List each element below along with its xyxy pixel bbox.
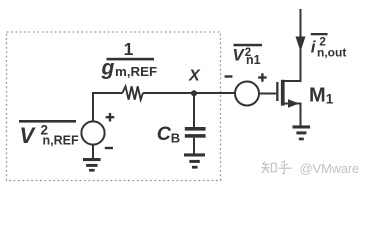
transistor M1 source arrow <box>288 99 299 108</box>
svg-text:B: B <box>171 131 180 146</box>
resistor R (1/gm,REF) zigzag <box>122 86 143 99</box>
polarity - of Vn1 <box>225 75 233 77</box>
ground under M1 <box>293 125 311 140</box>
svg-text:M: M <box>309 85 326 107</box>
ground under Vn,REF <box>83 158 101 172</box>
transistor M1 gate bar <box>276 82 278 101</box>
node X junction dot <box>191 90 197 96</box>
wire: node X down to capacitor <box>193 93 195 127</box>
svg-text:C: C <box>157 123 172 145</box>
current arrow on drain wire (pointing down) <box>296 37 306 52</box>
wire: resistor to node X and on to Vn1 source <box>143 92 236 94</box>
polarity + of Vn1 <box>258 73 266 81</box>
label i2 n,out with overline <box>311 33 347 60</box>
label Vn1 squared with overline <box>233 44 263 67</box>
value label 1/gm,REF (fraction) <box>101 39 158 80</box>
ground under CB <box>184 153 205 168</box>
svg-text:1: 1 <box>124 39 134 59</box>
watermark zhihu @VMware <box>261 161 291 174</box>
wire: Vn1 to gate of M1 <box>259 93 276 95</box>
wire: capacitor to ground <box>193 138 195 154</box>
wire: corner from Vn,REF source up and right to resistor <box>93 93 123 122</box>
polarity - of Vn,REF <box>105 147 113 149</box>
svg-text:g: g <box>101 57 115 80</box>
label M1 <box>309 85 334 107</box>
svg-text:m,REF: m,REF <box>115 64 157 79</box>
noise source Vn1 (circle) <box>235 82 259 106</box>
svg-text:1: 1 <box>326 92 334 107</box>
svg-text:n,REF: n,REF <box>43 134 79 148</box>
label CB <box>157 123 180 146</box>
svg-text:@VMware: @VMware <box>300 161 359 176</box>
dashed reference box <box>7 32 221 181</box>
capacitor CB plates <box>185 127 206 138</box>
svg-text:n,out: n,out <box>317 46 346 60</box>
svg-text:X: X <box>188 68 201 85</box>
polarity + of Vn,REF <box>106 113 115 122</box>
transistor M1 source connection <box>285 104 301 126</box>
label Vn,REF squared with overline <box>19 120 79 148</box>
wire: Vn,REF to ground <box>92 145 94 159</box>
svg-text:n1: n1 <box>246 53 261 67</box>
transistor M1 drain connection <box>285 9 301 81</box>
noise source Vn,REF (circle) <box>81 121 104 144</box>
transistor M1 channel bar <box>281 80 285 106</box>
svg-text:V: V <box>20 123 37 148</box>
